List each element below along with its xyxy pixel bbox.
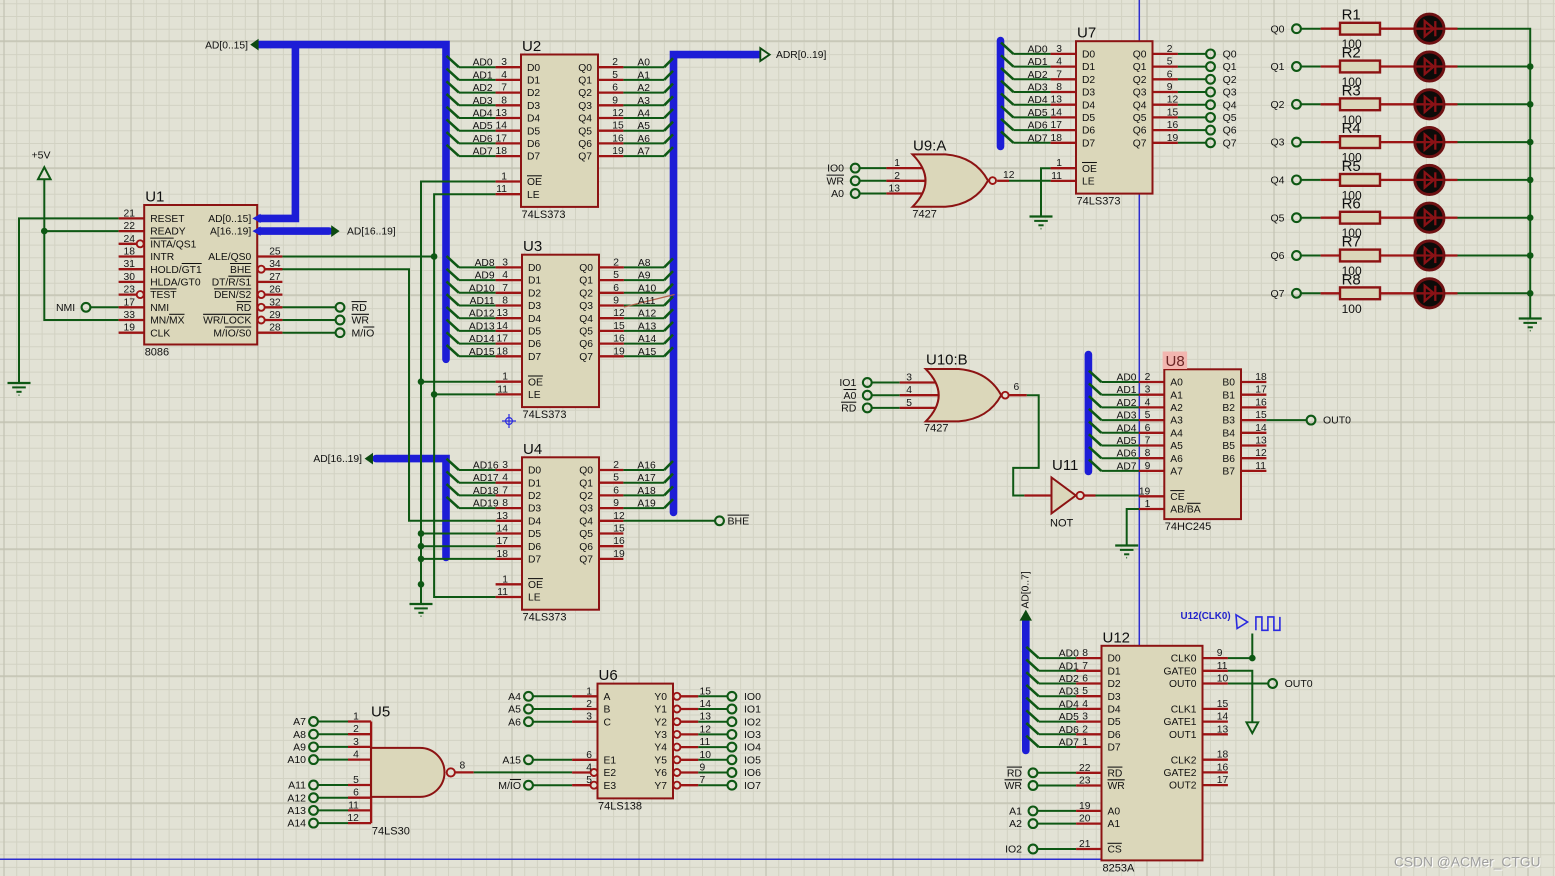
svg-text:Y2: Y2: [654, 717, 667, 728]
svg-text:8: 8: [1082, 648, 1088, 659]
svg-text:M/IO/S0: M/IO/S0: [213, 328, 251, 339]
svg-text:3: 3: [1145, 385, 1151, 396]
svg-text:R3: R3: [1342, 82, 1361, 99]
svg-text:15: 15: [1255, 410, 1267, 421]
svg-text:A1: A1: [1170, 390, 1183, 401]
svg-text:U7: U7: [1077, 25, 1096, 42]
svg-text:9: 9: [1145, 461, 1151, 472]
svg-text:19: 19: [1139, 486, 1151, 497]
svg-text:R5: R5: [1342, 158, 1361, 175]
svg-text:3: 3: [586, 712, 592, 723]
svg-text:Q5: Q5: [1223, 112, 1237, 124]
svg-text:A6: A6: [508, 716, 521, 728]
svg-text:TEST: TEST: [150, 290, 177, 301]
svg-text:OE: OE: [528, 377, 543, 388]
svg-text:17: 17: [1217, 775, 1229, 786]
svg-text:AD16: AD16: [473, 461, 499, 472]
svg-text:1: 1: [353, 712, 359, 723]
svg-text:MN/MX: MN/MX: [150, 316, 184, 327]
svg-text:A14: A14: [638, 334, 657, 345]
svg-text:D0: D0: [528, 263, 541, 274]
svg-text:AD4: AD4: [473, 109, 493, 120]
svg-text:Q3: Q3: [1270, 137, 1284, 149]
svg-text:E3: E3: [604, 781, 617, 792]
svg-text:100: 100: [1342, 302, 1362, 316]
svg-text:D6: D6: [1082, 126, 1095, 137]
svg-text:24: 24: [124, 234, 136, 245]
svg-text:Y3: Y3: [654, 730, 667, 741]
svg-text:Q7: Q7: [1270, 288, 1284, 300]
svg-text:A0: A0: [637, 58, 650, 69]
svg-text:A0: A0: [831, 188, 844, 200]
svg-text:AD2: AD2: [1116, 398, 1136, 409]
svg-text:D5: D5: [1108, 717, 1121, 728]
svg-text:A4: A4: [508, 691, 521, 703]
svg-text:8253A: 8253A: [1103, 862, 1135, 874]
svg-text:B2: B2: [1222, 403, 1235, 414]
svg-text:11: 11: [1051, 171, 1062, 182]
svg-text:11: 11: [348, 800, 359, 811]
svg-text:R8: R8: [1342, 271, 1361, 288]
svg-text:A13: A13: [638, 321, 657, 332]
svg-text:Q4: Q4: [1270, 175, 1284, 187]
svg-text:19: 19: [1079, 801, 1091, 812]
svg-text:B6: B6: [1222, 454, 1235, 465]
svg-text:D6: D6: [527, 139, 540, 150]
svg-text:U3: U3: [523, 238, 542, 255]
svg-text:5: 5: [353, 775, 359, 786]
svg-text:IO6: IO6: [744, 767, 761, 779]
svg-text:AD9: AD9: [475, 271, 495, 282]
svg-text:4: 4: [353, 750, 359, 761]
svg-text:AD11: AD11: [470, 296, 495, 307]
svg-text:13: 13: [1255, 436, 1267, 447]
svg-text:AD[0..15]: AD[0..15]: [208, 214, 251, 225]
svg-text:18: 18: [1255, 372, 1267, 383]
svg-text:6: 6: [353, 788, 359, 799]
svg-text:7: 7: [501, 83, 507, 94]
svg-text:AD13: AD13: [469, 321, 495, 332]
svg-text:OUT1: OUT1: [1169, 730, 1197, 741]
svg-text:U10:B: U10:B: [926, 352, 968, 369]
svg-text:A7: A7: [637, 147, 650, 158]
svg-text:16: 16: [613, 334, 625, 345]
svg-text:R6: R6: [1342, 196, 1361, 213]
svg-text:1: 1: [501, 172, 507, 183]
svg-text:Q0: Q0: [578, 63, 592, 74]
svg-text:6: 6: [586, 750, 592, 761]
svg-text:Q7: Q7: [579, 352, 593, 363]
svg-text:+5V: +5V: [32, 150, 51, 162]
svg-text:19: 19: [612, 146, 624, 157]
svg-text:22: 22: [1079, 763, 1091, 774]
svg-text:19: 19: [613, 346, 625, 357]
svg-text:4: 4: [501, 70, 507, 81]
svg-text:D2: D2: [527, 88, 540, 99]
svg-text:A5: A5: [1170, 441, 1183, 452]
svg-text:OUT0: OUT0: [1285, 678, 1313, 690]
svg-text:U5: U5: [371, 704, 390, 721]
svg-text:17: 17: [1051, 120, 1063, 131]
svg-text:E2: E2: [604, 768, 617, 779]
svg-text:AD14: AD14: [469, 334, 495, 345]
svg-text:WR: WR: [827, 175, 845, 187]
svg-text:AB/BA: AB/BA: [1170, 505, 1200, 516]
svg-text:2: 2: [353, 724, 359, 735]
svg-text:A17: A17: [637, 473, 656, 484]
svg-text:2: 2: [1167, 44, 1173, 55]
svg-text:AD1: AD1: [473, 70, 493, 81]
svg-text:7: 7: [502, 485, 508, 496]
svg-text:OUT0: OUT0: [1323, 415, 1351, 427]
svg-text:AD3: AD3: [473, 96, 493, 107]
svg-text:Q0: Q0: [1133, 50, 1147, 61]
svg-text:R7: R7: [1342, 234, 1361, 251]
svg-text:29: 29: [269, 310, 281, 321]
svg-text:U1: U1: [145, 189, 164, 206]
svg-text:Q4: Q4: [578, 114, 592, 125]
svg-text:A6: A6: [637, 134, 650, 145]
svg-text:Q5: Q5: [578, 126, 592, 137]
svg-text:11: 11: [497, 384, 508, 395]
svg-text:Y0: Y0: [654, 692, 667, 703]
svg-text:8: 8: [1056, 82, 1062, 93]
svg-text:18: 18: [496, 146, 508, 157]
svg-text:DEN/S2: DEN/S2: [214, 290, 251, 301]
svg-text:19: 19: [613, 549, 625, 560]
svg-text:4: 4: [1082, 699, 1088, 710]
svg-text:17: 17: [124, 297, 136, 308]
svg-text:LE: LE: [528, 593, 541, 604]
svg-text:A4: A4: [1170, 428, 1183, 439]
svg-text:31: 31: [124, 259, 136, 270]
svg-text:AD[0..15]: AD[0..15]: [205, 40, 248, 51]
svg-text:Q1: Q1: [579, 478, 593, 489]
svg-text:AD7: AD7: [1116, 461, 1136, 472]
svg-text:3: 3: [501, 57, 507, 68]
svg-text:A5: A5: [637, 121, 650, 132]
svg-text:18: 18: [1051, 133, 1063, 144]
svg-text:8: 8: [501, 95, 507, 106]
svg-text:27: 27: [269, 272, 281, 283]
svg-text:15: 15: [1217, 699, 1229, 710]
svg-text:22: 22: [124, 221, 136, 232]
svg-text:A16: A16: [637, 461, 656, 472]
svg-text:12: 12: [613, 511, 625, 522]
svg-text:AD6: AD6: [473, 134, 493, 145]
svg-text:RD: RD: [236, 303, 251, 314]
svg-text:D7: D7: [528, 555, 541, 566]
svg-text:D4: D4: [1082, 100, 1095, 111]
svg-text:13: 13: [497, 308, 509, 319]
svg-text:AD18: AD18: [473, 486, 499, 497]
svg-text:13: 13: [496, 108, 508, 119]
svg-text:D0: D0: [528, 466, 541, 477]
svg-text:Q5: Q5: [1270, 212, 1284, 224]
svg-text:A7: A7: [293, 716, 306, 728]
svg-text:D0: D0: [1082, 50, 1095, 61]
svg-text:R2: R2: [1342, 45, 1361, 62]
svg-text:Q2: Q2: [1223, 74, 1237, 86]
svg-text:D6: D6: [528, 542, 541, 553]
svg-text:12: 12: [612, 108, 624, 119]
svg-text:B0: B0: [1222, 378, 1235, 389]
svg-text:8086: 8086: [145, 347, 169, 359]
svg-text:18: 18: [1217, 750, 1229, 761]
svg-text:6: 6: [612, 83, 618, 94]
svg-text:RD: RD: [1007, 767, 1023, 779]
svg-text:7: 7: [1056, 69, 1062, 80]
svg-text:6: 6: [1014, 382, 1020, 393]
svg-text:10: 10: [700, 750, 712, 761]
svg-text:16: 16: [1217, 762, 1229, 773]
svg-text:AD8: AD8: [475, 258, 495, 269]
svg-text:16: 16: [1255, 397, 1267, 408]
svg-text:Q7: Q7: [578, 152, 592, 163]
svg-text:LE: LE: [528, 390, 541, 401]
svg-text:HOLD/GT1: HOLD/GT1: [150, 265, 202, 276]
svg-text:Q7: Q7: [579, 555, 593, 566]
svg-text:30: 30: [124, 272, 136, 283]
svg-text:WR: WR: [1108, 781, 1125, 792]
svg-text:12: 12: [1167, 95, 1179, 106]
svg-text:WR: WR: [1005, 780, 1023, 792]
svg-text:15: 15: [613, 321, 625, 332]
svg-text:7: 7: [700, 775, 706, 786]
svg-text:14: 14: [1255, 423, 1267, 434]
svg-text:Q0: Q0: [1270, 23, 1284, 35]
svg-text:D5: D5: [528, 327, 541, 338]
svg-text:6: 6: [1145, 423, 1151, 434]
svg-text:2: 2: [612, 57, 618, 68]
svg-text:CLK1: CLK1: [1171, 705, 1197, 716]
svg-text:6: 6: [1167, 69, 1173, 80]
svg-text:AD6: AD6: [1028, 121, 1048, 132]
svg-text:RD: RD: [352, 302, 368, 314]
svg-text:RD: RD: [841, 403, 857, 415]
svg-text:11: 11: [1255, 461, 1266, 472]
svg-text:D4: D4: [1108, 705, 1121, 716]
svg-text:12: 12: [1003, 170, 1015, 181]
svg-text:13: 13: [1051, 95, 1063, 106]
svg-text:21: 21: [124, 208, 136, 219]
svg-text:A2: A2: [637, 83, 650, 94]
svg-text:8: 8: [502, 296, 508, 307]
svg-text:13: 13: [497, 511, 509, 522]
svg-text:IO4: IO4: [744, 742, 761, 754]
svg-text:R1: R1: [1342, 7, 1361, 24]
svg-text:D3: D3: [527, 101, 540, 112]
svg-text:12: 12: [347, 813, 359, 824]
svg-text:8: 8: [460, 760, 466, 771]
svg-text:D2: D2: [528, 288, 541, 299]
svg-text:OE: OE: [527, 177, 542, 188]
svg-text:4: 4: [906, 385, 912, 396]
svg-text:D7: D7: [528, 352, 541, 363]
svg-text:OUT2: OUT2: [1169, 781, 1197, 792]
svg-text:AD1: AD1: [1028, 57, 1048, 68]
svg-text:9: 9: [613, 498, 619, 509]
svg-text:D6: D6: [1108, 730, 1121, 741]
svg-text:U4: U4: [523, 441, 542, 458]
svg-text:IO7: IO7: [744, 780, 761, 792]
svg-text:D5: D5: [1082, 113, 1095, 124]
svg-text:9: 9: [1217, 648, 1223, 659]
svg-text:17: 17: [1255, 385, 1267, 396]
svg-text:GATE2: GATE2: [1164, 768, 1197, 779]
svg-text:GATE0: GATE0: [1164, 666, 1197, 677]
svg-text:A12: A12: [287, 792, 306, 804]
svg-text:Q2: Q2: [579, 288, 593, 299]
svg-text:D7: D7: [1108, 743, 1121, 754]
svg-text:Q7: Q7: [1223, 137, 1237, 149]
svg-text:1: 1: [502, 574, 508, 585]
svg-text:6: 6: [1082, 674, 1088, 685]
svg-text:10: 10: [1217, 674, 1229, 685]
svg-text:B4: B4: [1222, 428, 1235, 439]
svg-text:A13: A13: [287, 805, 306, 817]
svg-text:Q4: Q4: [1223, 99, 1237, 111]
svg-text:D5: D5: [527, 126, 540, 137]
svg-text:CLK: CLK: [150, 328, 170, 339]
svg-text:A1: A1: [1009, 806, 1022, 818]
svg-text:13: 13: [889, 184, 901, 195]
svg-text:OE: OE: [1082, 164, 1097, 175]
svg-text:D3: D3: [1108, 692, 1121, 703]
svg-text:Q6: Q6: [579, 339, 593, 350]
svg-text:E1: E1: [604, 755, 617, 766]
svg-text:AD4: AD4: [1116, 423, 1136, 434]
svg-text:18: 18: [124, 247, 136, 258]
svg-text:3: 3: [502, 257, 508, 268]
svg-text:2: 2: [613, 257, 619, 268]
svg-text:D1: D1: [527, 76, 540, 87]
svg-text:OUT0: OUT0: [1169, 679, 1197, 690]
svg-text:CSDN @ACMer_CTGU: CSDN @ACMer_CTGU: [1394, 855, 1541, 870]
svg-text:Q5: Q5: [579, 529, 593, 540]
svg-text:AD12: AD12: [469, 309, 495, 320]
svg-text:AD3: AD3: [1116, 411, 1136, 422]
svg-text:Q3: Q3: [1223, 87, 1237, 99]
svg-text:33: 33: [124, 310, 136, 321]
svg-text:AD2: AD2: [1028, 70, 1048, 81]
svg-text:D1: D1: [528, 478, 541, 489]
svg-text:17: 17: [496, 133, 508, 144]
svg-text:Q0: Q0: [1223, 49, 1237, 61]
svg-text:AD2: AD2: [473, 83, 493, 94]
svg-text:74LS138: 74LS138: [598, 800, 642, 812]
svg-text:8: 8: [502, 498, 508, 509]
svg-text:IO0: IO0: [744, 691, 761, 703]
svg-text:AD0: AD0: [1116, 373, 1136, 384]
svg-text:Y1: Y1: [654, 705, 667, 716]
svg-text:M/IO: M/IO: [352, 327, 375, 339]
svg-text:28: 28: [269, 323, 281, 334]
svg-text:AD0: AD0: [1059, 649, 1079, 660]
svg-text:D0: D0: [527, 63, 540, 74]
svg-text:A8: A8: [638, 258, 651, 269]
svg-text:AD7: AD7: [473, 147, 493, 158]
svg-text:B3: B3: [1222, 416, 1235, 427]
svg-text:AD10: AD10: [469, 283, 495, 294]
svg-text:Q2: Q2: [1270, 99, 1284, 111]
svg-text:5: 5: [613, 270, 619, 281]
svg-text:5: 5: [586, 775, 592, 786]
svg-text:A2: A2: [1009, 818, 1022, 830]
svg-text:14: 14: [496, 121, 508, 132]
svg-text:ALE/QS0: ALE/QS0: [208, 252, 251, 263]
svg-text:A19: A19: [637, 499, 656, 510]
svg-text:A11: A11: [638, 296, 656, 307]
svg-text:Q3: Q3: [579, 301, 593, 312]
svg-text:Q4: Q4: [579, 516, 593, 527]
svg-text:AD4: AD4: [1028, 95, 1048, 106]
svg-text:AD5: AD5: [473, 121, 493, 132]
svg-text:READY: READY: [150, 227, 186, 238]
svg-text:9: 9: [1167, 82, 1173, 93]
svg-text:15: 15: [1167, 107, 1179, 118]
svg-text:WR: WR: [352, 315, 370, 327]
svg-text:AD0: AD0: [473, 58, 493, 69]
svg-text:18: 18: [497, 346, 509, 357]
svg-text:Q1: Q1: [1270, 61, 1284, 73]
svg-text:U12: U12: [1103, 629, 1131, 646]
svg-text:34: 34: [269, 259, 281, 270]
svg-text:AD5: AD5: [1116, 436, 1136, 447]
svg-text:6: 6: [613, 283, 619, 294]
svg-text:A4: A4: [637, 109, 650, 120]
svg-text:A5: A5: [508, 704, 521, 716]
svg-text:Q3: Q3: [578, 101, 592, 112]
svg-text:ADR[0..19]: ADR[0..19]: [776, 50, 827, 61]
svg-text:Q3: Q3: [579, 504, 593, 515]
svg-text:Q4: Q4: [1133, 100, 1147, 111]
svg-text:RD: RD: [1108, 768, 1123, 779]
svg-text:AD1: AD1: [1059, 661, 1079, 672]
svg-text:A14: A14: [287, 818, 306, 830]
svg-text:Q1: Q1: [1223, 61, 1237, 73]
svg-text:LE: LE: [1082, 177, 1095, 188]
svg-text:A10: A10: [287, 754, 306, 766]
svg-text:A9: A9: [638, 271, 651, 282]
svg-text:3: 3: [502, 460, 508, 471]
svg-text:2: 2: [1082, 724, 1088, 735]
svg-text:7427: 7427: [912, 209, 936, 221]
svg-text:4: 4: [502, 473, 508, 484]
svg-text:11: 11: [700, 737, 711, 748]
svg-text:Y5: Y5: [654, 755, 667, 766]
svg-text:Q1: Q1: [579, 276, 593, 287]
svg-text:AD19: AD19: [473, 499, 499, 510]
svg-text:D5: D5: [528, 529, 541, 540]
svg-text:5: 5: [1167, 57, 1173, 68]
svg-text:RESET: RESET: [150, 214, 185, 225]
svg-text:WR/LOCK: WR/LOCK: [203, 316, 251, 327]
svg-text:AD1: AD1: [1116, 385, 1136, 396]
svg-text:Q6: Q6: [1223, 125, 1237, 137]
svg-text:5: 5: [906, 398, 912, 409]
svg-text:A3: A3: [1170, 416, 1183, 427]
svg-text:AD6: AD6: [1059, 725, 1079, 736]
svg-text:1: 1: [1056, 158, 1062, 169]
svg-text:3: 3: [1056, 44, 1062, 55]
svg-text:IO1: IO1: [744, 704, 761, 716]
svg-text:17: 17: [497, 536, 509, 547]
svg-text:DT/R/S1: DT/R/S1: [212, 278, 252, 289]
svg-text:D3: D3: [528, 301, 541, 312]
svg-text:IO2: IO2: [1005, 844, 1022, 856]
svg-text:74LS373: 74LS373: [523, 409, 567, 421]
